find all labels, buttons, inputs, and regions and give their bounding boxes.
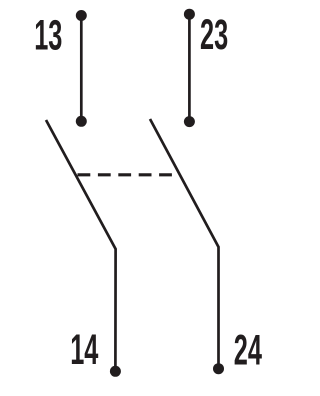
svg-text:14: 14 xyxy=(70,328,99,374)
terminal dot 13 (top) xyxy=(76,10,87,21)
wire: moving contact blade 13-14 (NO contact) xyxy=(46,120,116,371)
terminal dot 23 (top) xyxy=(184,9,195,20)
terminal dot 14 (bottom) xyxy=(110,366,121,377)
pin label 14 xyxy=(70,328,99,374)
terminal dot 23 (contact end) xyxy=(184,116,195,127)
terminal dot 24 (bottom) xyxy=(213,363,224,374)
svg-text:24: 24 xyxy=(234,328,263,374)
wire: fixed lead of contact 13 xyxy=(80,16,83,122)
terminal dot 13 (contact end) xyxy=(76,116,87,127)
pin label 23 xyxy=(200,13,228,59)
pin label 24 xyxy=(234,328,263,374)
dashed mechanical coupling link xyxy=(78,173,181,176)
wire: moving contact blade 23-24 (NO contact) xyxy=(150,119,219,369)
pin label 13 xyxy=(34,13,62,59)
svg-text:13: 13 xyxy=(34,13,62,59)
svg-text:23: 23 xyxy=(200,13,228,59)
wire: fixed lead of contact 23 xyxy=(188,14,191,121)
